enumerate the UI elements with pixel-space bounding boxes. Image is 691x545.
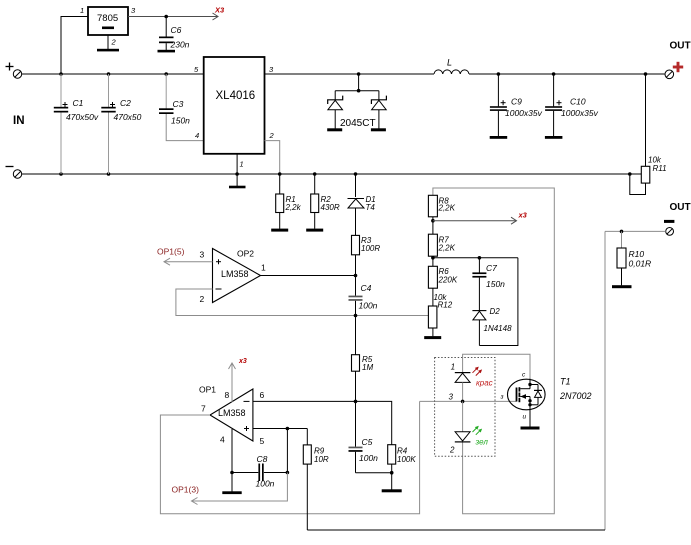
node C9 top — [497, 72, 501, 76]
svg-text:1N4148: 1N4148 — [484, 324, 513, 333]
node R11 wiper on rail — [628, 172, 632, 176]
svg-text:R11: R11 — [653, 164, 667, 173]
svg-text:C8: C8 — [257, 454, 268, 464]
node OP2 out / R3 / C4 — [354, 274, 358, 278]
potentiometer R11 — [630, 74, 650, 195]
minus mark OUT- — [664, 220, 674, 223]
svg-text:2: 2 — [200, 294, 205, 304]
inductor L — [434, 70, 469, 74]
resistor R1 — [276, 174, 284, 229]
resistor R3 — [352, 235, 360, 275]
svg-text:100K: 100K — [397, 455, 416, 464]
ground OP1 — [222, 491, 241, 494]
svg-text:OUT: OUT — [670, 202, 691, 213]
svg-text:C4: C4 — [361, 283, 372, 293]
wire OP1 pin6 to R5/R4 — [253, 401, 392, 444]
svg-text:C3: C3 — [173, 99, 184, 109]
resistor R4 — [388, 445, 396, 490]
regulator U2 7805 — [88, 7, 128, 35]
wire R8 top loop from OP1 output bus — [433, 188, 554, 514]
svg-text:C2: C2 — [120, 98, 131, 108]
wire OP2 pin3 arrow to OP1(5) — [164, 258, 213, 265]
svg-text:C6: C6 — [171, 25, 182, 35]
resistor R7 — [428, 234, 437, 266]
svg-text:1: 1 — [80, 6, 84, 15]
ground R10 — [612, 285, 632, 288]
wire XL4016 pin2 to bottom rail — [265, 141, 280, 174]
capacitor C3 — [159, 74, 174, 114]
wire 7805 input from rail — [61, 17, 88, 75]
svg-text:2,2k: 2,2k — [285, 203, 302, 212]
terminal OUT+ — [665, 70, 674, 79]
ground C5/R4 — [382, 489, 402, 492]
svg-text:LM358: LM358 — [221, 269, 249, 279]
LED2 emission arrows green — [473, 426, 483, 435]
wire C7/D2 loop right side — [479, 258, 518, 346]
wire 7805 output to X3 arrow — [128, 13, 218, 20]
svg-text:R10: R10 — [629, 249, 645, 259]
capacitor C4 — [349, 276, 363, 316]
wire OP2 pin2 feedback to R12 wiper — [176, 289, 429, 316]
svg-text:крас: крас — [476, 379, 493, 388]
svg-text:D2: D2 — [490, 307, 501, 316]
wire XL4016 pin3 output rail — [265, 73, 435, 75]
op-amp U3 OP2 LM358 — [213, 249, 261, 303]
node 3 LED junction — [461, 400, 465, 404]
resistor R10 — [617, 231, 626, 285]
svg-text:IN: IN — [13, 115, 25, 127]
node 2045CT common — [357, 89, 361, 93]
wire 2045CT common bar — [335, 90, 379, 92]
wire OP1 pin8 X3 arrow up — [229, 363, 236, 402]
svg-text:C7: C7 — [486, 263, 497, 273]
node R7/R6/C7 — [431, 256, 435, 260]
resistor R8 — [428, 195, 437, 234]
svg-text:T4: T4 — [366, 203, 376, 212]
svg-text:и: и — [523, 414, 527, 421]
svg-text:OUT: OUT — [670, 41, 691, 52]
ground C6 — [158, 50, 176, 53]
node C6 tap — [164, 15, 168, 19]
plus mark OUT+ red — [673, 62, 683, 72]
svg-text:100R: 100R — [361, 244, 380, 253]
svg-text:C1: C1 — [73, 98, 84, 108]
wire T1 source to ground — [529, 408, 531, 427]
terminal OUT- — [666, 228, 674, 236]
terminal IN+ — [6, 63, 22, 79]
svg-text:4: 4 — [220, 435, 225, 445]
svg-text:230n: 230n — [170, 40, 190, 50]
svg-text:100n: 100n — [359, 453, 378, 463]
node 2045CT tap — [357, 72, 361, 76]
LED D5 green — [455, 401, 471, 442]
wire OP1(3) arrow — [192, 473, 288, 505]
node R2 on rail — [313, 172, 317, 176]
svg-text:зел: зел — [475, 438, 489, 447]
svg-text:3: 3 — [449, 393, 454, 402]
node pin1 on rail — [235, 172, 239, 176]
node C2 top — [107, 72, 111, 76]
svg-text:1000x35v: 1000x35v — [505, 108, 543, 118]
svg-text:1M: 1M — [362, 363, 373, 372]
node R5 bottom — [354, 400, 358, 404]
diode D3a schottky 2045CT — [327, 91, 343, 132]
node C7 top — [478, 256, 482, 260]
svg-text:1: 1 — [240, 160, 244, 169]
capacitor C6 — [159, 17, 174, 51]
wire to C7 parallel group — [433, 257, 518, 259]
svg-text:LM358: LM358 — [218, 408, 246, 418]
node pin5 / C8 riser — [286, 427, 290, 431]
op-amp U4 OP1 LM358 — [210, 389, 253, 441]
svg-text:2: 2 — [269, 131, 275, 140]
capacitor C5 — [349, 401, 392, 472]
wire bottom rail IN- — [22, 173, 630, 175]
svg-text:1000x35v: 1000x35v — [561, 108, 599, 118]
svg-text:1: 1 — [261, 263, 266, 273]
svg-text:X3: X3 — [214, 6, 225, 15]
svg-text:6: 6 — [260, 390, 265, 400]
svg-text:2: 2 — [111, 38, 117, 47]
ground R12 — [424, 336, 441, 339]
dashed LED indicator box — [435, 358, 495, 457]
wire OUT- to sense node — [605, 230, 666, 232]
svg-text:2045CT: 2045CT — [340, 118, 376, 129]
ground R1 — [271, 229, 288, 232]
svg-text:C10: C10 — [570, 97, 586, 107]
IC U1 XL4016 — [204, 57, 265, 154]
wire OP1 pin5 — [253, 428, 307, 430]
svg-text:XL4016: XL4016 — [216, 90, 256, 102]
wire OP1 output feedback loop to node 3 — [160, 401, 419, 513]
node C1 on rails — [59, 172, 63, 176]
svg-text:2,2K: 2,2K — [438, 244, 456, 253]
svg-text:470x50: 470x50 — [114, 112, 142, 122]
wire sense drop to bottom bus — [604, 231, 606, 530]
wire X3 arrow mid — [433, 217, 517, 224]
svg-text:OP1: OP1 — [199, 385, 216, 395]
svg-text:3: 3 — [200, 250, 205, 260]
svg-text:470x50v: 470x50v — [66, 112, 99, 122]
svg-text:C9: C9 — [511, 97, 522, 107]
diode D2 1N4148 — [472, 311, 486, 346]
svg-text:0,01R: 0,01R — [629, 259, 652, 269]
ground XL4016 — [229, 186, 246, 189]
wire XL4016 pin1 to ground — [236, 154, 238, 186]
ground T1 — [521, 427, 540, 430]
capacitor C7 — [472, 258, 486, 311]
capacitor C2 electrolytic — [101, 74, 115, 174]
potentiometer R12 — [428, 306, 437, 336]
svg-text:10R: 10R — [314, 455, 329, 464]
svg-text:з: з — [500, 394, 504, 401]
svg-text:220K: 220K — [438, 276, 458, 285]
wire C3 to XL4016 pin4 — [166, 114, 204, 141]
resistor R9 — [303, 429, 311, 531]
capacitor C9 electrolytic — [490, 74, 507, 136]
node pin4 / C8 — [230, 471, 234, 475]
svg-text:L: L — [447, 58, 452, 68]
node C5/R4 bottom — [390, 471, 394, 475]
svg-text:1: 1 — [451, 363, 455, 372]
LED D4 red — [455, 373, 471, 402]
svg-text:T1: T1 — [560, 377, 571, 387]
wire to 2045CT — [358, 74, 360, 91]
svg-text:x3: x3 — [518, 211, 528, 220]
node D1 on rail — [354, 172, 358, 176]
capacitor C8 — [232, 429, 287, 482]
wire top rail IN+ to XL4016 pin5 — [22, 73, 204, 75]
svg-text:x3: x3 — [238, 358, 247, 365]
svg-text:100n: 100n — [256, 479, 275, 489]
svg-text:7805: 7805 — [97, 13, 118, 24]
diode D3b schottky 2045CT — [371, 91, 387, 132]
node R8/R7 X3 tap — [431, 219, 435, 223]
svg-text:2,2K: 2,2K — [438, 204, 456, 213]
terminal IN- — [6, 167, 22, 179]
svg-text:7: 7 — [201, 404, 206, 414]
resistor R6 — [428, 266, 437, 306]
svg-text:430R: 430R — [321, 203, 340, 212]
wire OP1 pin4 down — [231, 429, 233, 492]
svg-text:4: 4 — [195, 131, 199, 140]
wire rail after inductor to OUT+ — [469, 73, 665, 75]
node C2 bottom — [107, 172, 111, 176]
svg-text:100n: 100n — [359, 301, 378, 311]
svg-text:2N7002: 2N7002 — [559, 391, 592, 401]
transistor T1 2N7002 mosfet — [508, 379, 546, 410]
svg-text:5: 5 — [260, 436, 265, 446]
svg-text:150n: 150n — [486, 279, 505, 289]
svg-text:2: 2 — [449, 446, 455, 455]
wire node3 bus to T1 gate — [420, 400, 517, 402]
node C3 top — [164, 72, 168, 76]
node R1 on rail — [278, 172, 282, 176]
node C10 top — [552, 72, 556, 76]
capacitor C1 electrolytic — [54, 74, 68, 174]
wire LED1 anode to T1 drain — [463, 354, 530, 379]
svg-text:OP1(5): OP1(5) — [157, 247, 185, 257]
svg-text:150n: 150n — [171, 116, 190, 126]
node R10 tap — [620, 230, 624, 234]
resistor R2 — [311, 174, 319, 229]
svg-text:8: 8 — [225, 390, 230, 400]
ground C9 — [490, 136, 508, 139]
capacitor C10 electrolytic — [545, 74, 562, 136]
svg-text:OP2: OP2 — [237, 249, 254, 259]
svg-text:R12: R12 — [438, 301, 453, 310]
wire OP2 output — [261, 275, 356, 277]
node C8 right — [286, 471, 290, 475]
svg-text:C5: C5 — [362, 437, 373, 447]
ground C10 — [545, 136, 563, 139]
node C4 bottom — [354, 314, 358, 318]
LED1 emission arrows red — [473, 367, 483, 376]
diode D1 — [348, 174, 365, 235]
ground 7805 — [97, 49, 119, 52]
resistor R5 — [352, 316, 360, 401]
ground R2 — [306, 229, 323, 232]
wire bottom sense bus — [307, 529, 605, 531]
wire 7805 pin2 to ground — [107, 35, 109, 49]
node R11 top — [644, 72, 648, 76]
svg-text:OP1(3): OP1(3) — [172, 485, 200, 495]
node rail/7805 input — [59, 72, 63, 76]
